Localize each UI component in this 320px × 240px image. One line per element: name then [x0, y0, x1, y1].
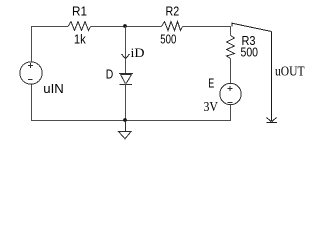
svg-text:iD: iD	[131, 45, 145, 60]
wire uOUT probe vertical	[271, 32, 273, 122]
svg-text:3V: 3V	[204, 100, 219, 115]
wire diode branch upper	[125, 26, 127, 74]
resistor R3	[227, 36, 235, 59]
source E circle	[220, 83, 241, 104]
svg-text:500: 500	[241, 46, 259, 60]
diode D cathode bar	[120, 84, 133, 86]
minus sign of uIN	[28, 79, 33, 81]
wire top rail right segment	[183, 26, 231, 28]
wire E source to bottom rail	[230, 105, 232, 121]
svg-text:uOUT: uOUT	[275, 64, 305, 79]
wire left vertical lower	[31, 84, 33, 121]
source uIN circle V1	[20, 62, 42, 84]
diode D triangle	[121, 75, 132, 84]
svg-text:D: D	[106, 67, 114, 81]
wire R3 to E source	[230, 59, 232, 84]
svg-text:R1: R1	[72, 4, 87, 18]
node junction dot top	[123, 24, 127, 28]
wire ground stub	[125, 121, 127, 132]
plus sign of uIN	[28, 63, 33, 68]
svg-text:uIN: uIN	[43, 82, 64, 96]
current arrow iD	[122, 54, 130, 59]
plus sign of E	[228, 86, 233, 91]
svg-text:1k: 1k	[74, 32, 86, 46]
node junction dot bottom	[123, 118, 127, 122]
svg-text:E: E	[208, 75, 214, 90]
resistor R1	[68, 22, 91, 31]
bottom tick of uOUT probe	[267, 122, 278, 124]
wire bottom rail	[32, 120, 231, 122]
svg-text:R2: R2	[166, 5, 180, 19]
wire left vertical upper	[31, 26, 33, 62]
wire R3 branch top stub	[230, 26, 232, 36]
resistor R2	[162, 22, 183, 31]
wire top rail left segment	[32, 26, 69, 28]
ground	[119, 132, 132, 139]
wire top rail middle segment	[91, 26, 162, 28]
wire uOUT probe diagonal	[232, 23, 272, 31]
arrowhead of uOUT probe	[267, 118, 277, 122]
svg-text:500: 500	[160, 32, 176, 46]
minus sign of E	[228, 102, 233, 104]
wire diode branch lower	[125, 85, 127, 122]
diode D anode bar	[119, 73, 133, 75]
